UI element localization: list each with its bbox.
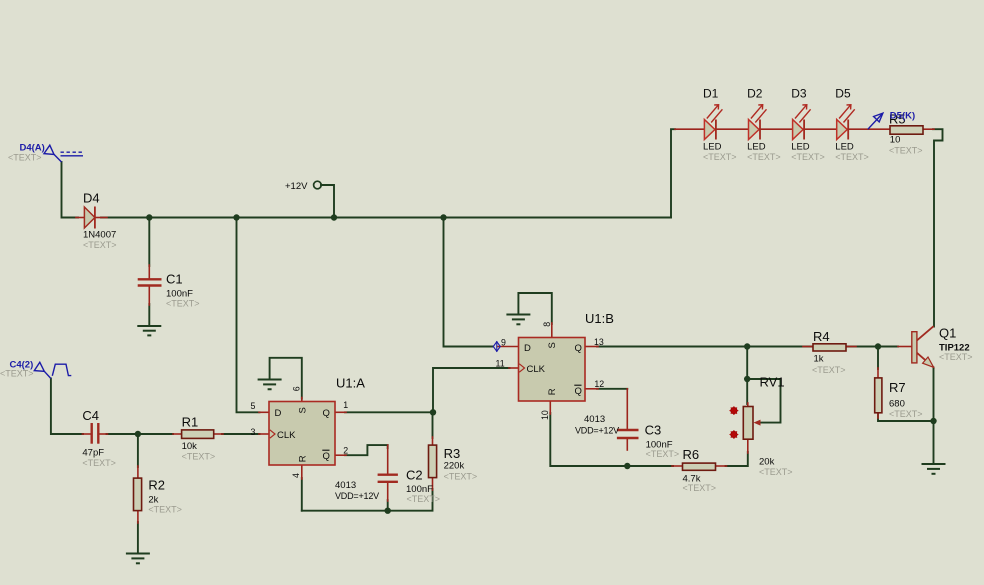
svg-text:C3: C3 <box>645 422 662 437</box>
pin lead R4 left <box>803 346 813 348</box>
resistor R6 <box>683 463 716 470</box>
svg-text:10: 10 <box>540 410 550 420</box>
svg-text:<TEXT>: <TEXT> <box>166 299 200 309</box>
wire U1:A CLK3 from R1 <box>222 433 260 435</box>
ground under Q1 emitter <box>922 464 946 474</box>
capacitor C4 <box>92 423 99 444</box>
svg-text:CLK: CLK <box>527 364 546 375</box>
pin lead R6 right <box>716 465 727 467</box>
svg-text:<TEXT>: <TEXT> <box>703 152 737 162</box>
resistor R2 <box>134 478 142 511</box>
probe arrow D5(K) <box>868 113 883 129</box>
svg-text:Q1: Q1 <box>939 326 956 341</box>
wire U1:B Q12 to C3 <box>597 388 627 390</box>
pin lead C2 top <box>387 445 389 474</box>
svg-text:680: 680 <box>889 398 905 409</box>
wire +12V rail y=217.5 <box>101 217 671 219</box>
svg-text:<TEXT>: <TEXT> <box>8 152 42 162</box>
svg-text:CLK: CLK <box>277 430 296 441</box>
svg-text:1N4007: 1N4007 <box>83 230 116 241</box>
wire R3 bottom to rail <box>302 489 433 511</box>
pin lead R3 top <box>432 437 434 446</box>
wire U1:B S pin8 to ground <box>518 293 551 324</box>
wire +12V symbol link <box>321 185 334 218</box>
pin lead RV1 bottom <box>747 439 749 453</box>
svg-text:Q: Q <box>575 343 582 354</box>
svg-text:1k: 1k <box>814 353 824 364</box>
svg-text:D2: D2 <box>747 87 763 101</box>
ground U1:A set pin <box>258 380 282 390</box>
IC U1:B clk wedge <box>519 364 524 372</box>
wire U1:A S pin6 to ground <box>270 358 302 399</box>
pin lead LED row D1-D5 and R5 <box>675 128 890 130</box>
pin lead U1:A pin4 <box>301 465 303 479</box>
pin lead R6 left <box>672 465 683 467</box>
junction rail pin9 <box>440 214 446 220</box>
svg-text:R7: R7 <box>889 380 906 395</box>
pin lead C4 left <box>82 433 91 435</box>
svg-text:13: 13 <box>594 337 604 347</box>
svg-text:+12V: +12V <box>285 181 308 192</box>
pin lead U1:B pin8 <box>551 323 553 338</box>
pin lead U1:B pin12 <box>585 388 598 390</box>
transistor Q1 emitter <box>917 353 934 368</box>
IC U1:A clk wedge <box>270 430 275 438</box>
svg-text:2: 2 <box>343 445 348 455</box>
IC U1:A body <box>269 402 335 466</box>
svg-text:S: S <box>297 407 308 413</box>
svg-text:<TEXT>: <TEXT> <box>939 352 973 362</box>
pin lead U1:A pin5 <box>259 411 269 413</box>
svg-text:<TEXT>: <TEXT> <box>646 449 680 459</box>
wire junction down to R3 <box>432 412 434 438</box>
svg-text:<TEXT>: <TEXT> <box>835 152 869 162</box>
svg-text:4013: 4013 <box>335 480 356 491</box>
pin lead C1 bottom <box>148 287 150 306</box>
pin lead R7 top <box>877 368 879 378</box>
wire rail to U1:B pin9 <box>444 218 494 347</box>
svg-text:Q: Q <box>323 451 330 462</box>
svg-text:VDD=+12V: VDD=+12V <box>575 425 619 435</box>
wire rail to U1:A pin5 <box>237 218 260 413</box>
wire R7 top branch <box>877 347 879 370</box>
resistor R1 <box>182 430 214 439</box>
svg-text:LED: LED <box>703 142 722 153</box>
svg-text:<TEXT>: <TEXT> <box>82 458 116 468</box>
capacitor C1 <box>138 279 162 285</box>
svg-text:<TEXT>: <TEXT> <box>889 409 923 419</box>
svg-text:5: 5 <box>251 401 256 411</box>
transistor Q1 collector <box>917 326 934 340</box>
LED D3 <box>793 105 811 140</box>
LED D2 <box>749 105 767 140</box>
pin lead U1:A pin6 <box>301 398 303 402</box>
diode D4 <box>84 207 95 229</box>
pin lead R1 right <box>214 433 223 435</box>
svg-text:4: 4 <box>291 473 301 478</box>
junction C3 bottom <box>624 463 630 469</box>
svg-text:D3: D3 <box>791 87 807 101</box>
pin lead U1:A pin2 <box>335 454 346 456</box>
junction C4 R1 R2 <box>135 431 141 437</box>
svg-text:10: 10 <box>890 135 901 146</box>
svg-text:RV1: RV1 <box>760 375 785 390</box>
wire RV1 bottom to rail <box>726 452 748 466</box>
wire C1 to ground <box>148 304 150 325</box>
pin lead R5 right <box>923 128 934 130</box>
pin lead R2 top <box>137 466 139 479</box>
junction rail C1 <box>146 214 152 220</box>
svg-text:D5(K): D5(K) <box>890 110 915 121</box>
svg-text:3: 3 <box>251 427 256 437</box>
resistor R5 <box>890 126 923 134</box>
svg-text:10k: 10k <box>182 441 198 452</box>
wire C4 to R1 segment <box>107 433 174 435</box>
ground under C1 <box>137 326 161 335</box>
pin lead Q1 base <box>898 346 912 348</box>
wire U1:A Q2 to C2 <box>345 445 388 455</box>
potentiometer RV1 body <box>743 407 753 440</box>
junction RV1 wiper node <box>744 376 750 382</box>
svg-text:<TEXT>: <TEXT> <box>0 369 34 379</box>
resistor R4 <box>813 344 846 351</box>
svg-text:<TEXT>: <TEXT> <box>444 472 478 482</box>
svg-text:C4: C4 <box>82 408 99 423</box>
pin lead C1 top <box>148 265 150 278</box>
wire LED riser <box>671 129 675 217</box>
svg-text:R: R <box>297 455 308 462</box>
svg-text:LED: LED <box>747 142 766 153</box>
junction rail U1:A D <box>233 214 239 220</box>
power +12V <box>285 181 321 192</box>
LED D5 <box>837 105 855 140</box>
svg-text:<TEXT>: <TEXT> <box>83 240 117 250</box>
svg-text:D1: D1 <box>703 87 719 101</box>
wire junction up to U1:B pin11 <box>433 368 510 412</box>
svg-text:U1:A: U1:A <box>336 376 365 391</box>
svg-text:<TEXT>: <TEXT> <box>889 145 923 155</box>
svg-text:R6: R6 <box>683 447 700 462</box>
U1:B Qbar overline <box>574 384 581 386</box>
pin lead C2 bottom <box>387 482 389 501</box>
wire R2 to ground <box>137 522 139 553</box>
wire terminal D4(A) drop <box>62 162 79 218</box>
RV1 red marker bottom <box>730 430 739 439</box>
ground U1:B set pin <box>506 315 530 325</box>
svg-text:220k: 220k <box>444 461 465 472</box>
wire C3 bottom rail segment <box>627 465 673 467</box>
svg-text:C2: C2 <box>406 468 423 483</box>
wire C2 bottom drop <box>387 500 389 511</box>
terminal C4(2) pulse icon <box>52 364 71 376</box>
svg-text:R4: R4 <box>813 329 830 344</box>
svg-text:S: S <box>547 342 558 348</box>
capacitor C2 <box>378 475 398 482</box>
pin lead C4 right <box>99 433 108 435</box>
junction Q13 RV1 <box>744 343 750 349</box>
potentiometer RV1 wiper arrow <box>754 420 761 426</box>
terminal C4(2) arrow <box>34 362 51 378</box>
svg-text:<TEXT>: <TEXT> <box>747 152 781 162</box>
pin lead C3 bottom <box>626 439 628 450</box>
svg-text:<TEXT>: <TEXT> <box>812 365 846 375</box>
wire RV1 top branch <box>746 347 748 405</box>
junction emitter R7 <box>930 418 936 424</box>
svg-text:<TEXT>: <TEXT> <box>182 452 216 462</box>
svg-text:4013: 4013 <box>584 414 605 425</box>
svg-text:6: 6 <box>292 386 302 391</box>
wire R2 branch <box>137 434 139 467</box>
svg-text:11: 11 <box>496 359 505 369</box>
svg-text:LED: LED <box>791 142 810 153</box>
svg-text:R1: R1 <box>182 414 199 429</box>
wire U1:B Q13 line <box>597 346 898 348</box>
pin lead U1:B pin9 <box>498 346 518 348</box>
pin lead R7 bottom <box>877 413 879 418</box>
pin lead D4 right <box>95 217 107 219</box>
wire U1:A R pin4 drop <box>301 478 303 511</box>
svg-text:9: 9 <box>501 338 506 348</box>
wire emitter to ground <box>933 368 935 464</box>
svg-text:R2: R2 <box>148 478 165 493</box>
U1:A Qbar overline <box>322 449 329 451</box>
pin lead RV1 top <box>747 403 749 407</box>
svg-text:D5: D5 <box>835 87 851 101</box>
node marker U1:B pin9 <box>493 341 500 352</box>
wire R5 to collector jog <box>933 129 943 326</box>
svg-text:<TEXT>: <TEXT> <box>683 483 717 493</box>
svg-text:D: D <box>524 343 531 354</box>
svg-text:1: 1 <box>343 400 348 410</box>
pin lead U1:B pin11 <box>509 367 518 369</box>
svg-text:<TEXT>: <TEXT> <box>759 467 793 477</box>
svg-text:<TEXT>: <TEXT> <box>148 504 182 514</box>
pin lead D4 left <box>76 217 84 219</box>
svg-text:LED: LED <box>835 142 854 153</box>
pin lead R2 bottom <box>137 511 139 523</box>
transistor Q1 emitter arrow <box>923 357 934 367</box>
svg-text:Q: Q <box>575 386 582 397</box>
svg-text:R: R <box>547 388 558 395</box>
svg-text:C1: C1 <box>166 271 183 286</box>
pin lead C3 top <box>626 389 628 430</box>
pin lead U1:A pin3 <box>259 433 269 435</box>
junction U1:A Q1 <box>430 409 436 415</box>
junction C2 bottom <box>385 508 391 514</box>
RV1 red marker top <box>730 406 739 415</box>
svg-text:Q: Q <box>323 408 330 419</box>
terminal D4(A) arrow <box>44 145 62 162</box>
svg-text:<TEXT>: <TEXT> <box>407 494 441 504</box>
pin lead R3 bottom <box>432 478 434 490</box>
wire terminal C4(2) drop <box>51 379 83 435</box>
resistor R3 <box>429 445 437 478</box>
transistor Q1 body bar <box>912 332 917 363</box>
svg-text:D: D <box>275 408 282 419</box>
IC U1:B body <box>519 338 586 402</box>
svg-text:R3: R3 <box>444 446 461 461</box>
wire U1:A Q1 to junction <box>345 411 433 413</box>
resistor R7 <box>875 378 882 413</box>
wire R7 bottom to emitter <box>878 413 934 421</box>
svg-text:VDD=+12V: VDD=+12V <box>335 491 379 501</box>
pin lead R4 right <box>846 346 856 348</box>
capacitor C3 <box>617 430 639 438</box>
junction rail +12V <box>331 214 337 220</box>
terminal D4(A) dc icon <box>61 152 84 156</box>
junction R7 top <box>875 343 881 349</box>
wire RV1 wiper loop <box>747 379 780 423</box>
ground under R2 <box>126 554 150 564</box>
wire C1 branch <box>148 218 150 267</box>
svg-text:12: 12 <box>594 379 604 389</box>
svg-text:20k: 20k <box>759 456 775 467</box>
svg-text:U1:B: U1:B <box>585 311 614 326</box>
pin lead U1:B pin13 <box>585 346 598 348</box>
svg-text:8: 8 <box>542 322 552 327</box>
svg-text:D4: D4 <box>83 191 100 206</box>
pin lead U1:A pin1 <box>335 411 346 413</box>
svg-text:<TEXT>: <TEXT> <box>791 152 825 162</box>
pin lead U1:B pin10 <box>549 401 551 414</box>
pin lead R1 left <box>173 433 182 435</box>
LED D1 <box>704 105 722 140</box>
wire U1:B R pin10 bottom rail <box>550 413 673 466</box>
